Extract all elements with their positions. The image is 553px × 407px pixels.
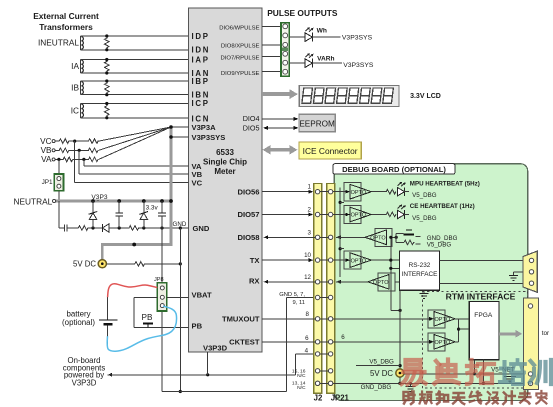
svg-text:VARh: VARh bbox=[317, 55, 334, 62]
svg-text:OPTO: OPTO bbox=[351, 258, 367, 264]
svg-text:CE HEARTBEAT (1Hz): CE HEARTBEAT (1Hz) bbox=[410, 203, 475, 210]
svg-text:DIO8/XPULSE: DIO8/XPULSE bbox=[221, 43, 260, 49]
svg-text:OPTO: OPTO bbox=[351, 190, 367, 196]
svg-text:DIO56: DIO56 bbox=[238, 187, 260, 196]
svg-text:OPTO: OPTO bbox=[435, 340, 451, 346]
svg-text:5V DC: 5V DC bbox=[73, 260, 96, 269]
svg-text:DIO9/YPULSE: DIO9/YPULSE bbox=[221, 71, 260, 77]
svg-text:CKTEST: CKTEST bbox=[229, 338, 260, 347]
svg-text:3.3V LCD: 3.3V LCD bbox=[410, 93, 441, 100]
svg-text:IDP: IDP bbox=[192, 32, 210, 41]
svg-text:RS-232: RS-232 bbox=[409, 262, 431, 269]
svg-text:VB: VB bbox=[41, 146, 52, 155]
svg-text:N/C: N/C bbox=[297, 373, 306, 379]
svg-text:V5_DBG: V5_DBG bbox=[369, 359, 394, 366]
svg-text:TMUXOUT: TMUXOUT bbox=[222, 315, 260, 324]
svg-text:RX: RX bbox=[249, 277, 260, 286]
svg-text:FPGA: FPGA bbox=[474, 312, 493, 319]
svg-text:EEPROM: EEPROM bbox=[299, 119, 335, 128]
svg-text:INTERFACE: INTERFACE bbox=[402, 271, 438, 278]
svg-text:IAP: IAP bbox=[192, 55, 210, 64]
svg-text:VBAT: VBAT bbox=[192, 291, 212, 300]
svg-text:8: 8 bbox=[306, 311, 310, 318]
svg-text:Wh: Wh bbox=[317, 27, 327, 34]
svg-text:V3P3SYS: V3P3SYS bbox=[192, 133, 226, 142]
svg-text:VC: VC bbox=[40, 137, 51, 146]
svg-text:V3P3SYS: V3P3SYS bbox=[343, 62, 374, 69]
svg-text:2: 2 bbox=[308, 207, 312, 214]
svg-text:GND 5, 7,: GND 5, 7, bbox=[279, 292, 305, 298]
svg-text:OPTO: OPTO bbox=[373, 280, 389, 286]
svg-text:VA: VA bbox=[41, 155, 52, 164]
svg-text:TX: TX bbox=[250, 256, 260, 265]
svg-text:J2: J2 bbox=[314, 394, 323, 403]
svg-text:MPU HEARTBEAT (5Hz): MPU HEARTBEAT (5Hz) bbox=[410, 180, 480, 187]
svg-text:NEUTRAL: NEUTRAL bbox=[14, 196, 53, 206]
svg-text:(optional): (optional) bbox=[62, 318, 95, 327]
svg-text:6533: 6533 bbox=[216, 148, 234, 157]
svg-text:tor: tor bbox=[542, 330, 550, 337]
svg-text:OPTO: OPTO bbox=[351, 213, 367, 219]
svg-text:GND_DBG: GND_DBG bbox=[361, 384, 392, 391]
svg-text:VC: VC bbox=[192, 178, 203, 187]
svg-text:IBP: IBP bbox=[192, 77, 210, 86]
svg-text:GND: GND bbox=[193, 224, 210, 233]
svg-text:Meter: Meter bbox=[214, 167, 235, 176]
svg-text:JP21: JP21 bbox=[331, 394, 350, 403]
svg-text:DIO6/WPULSE: DIO6/WPULSE bbox=[219, 25, 259, 31]
svg-text:V5_DBG: V5_DBG bbox=[412, 215, 437, 222]
svg-text:V3P3A: V3P3A bbox=[192, 123, 217, 132]
svg-text:DIO57: DIO57 bbox=[238, 210, 260, 219]
svg-text:DEBUG BOARD (OPTIONAL): DEBUG BOARD (OPTIONAL) bbox=[342, 165, 446, 174]
svg-text:Single Chip: Single Chip bbox=[203, 157, 247, 166]
svg-text:PB: PB bbox=[142, 313, 153, 322]
svg-text:3.3v: 3.3v bbox=[146, 205, 159, 212]
svg-text:PULSE OUTPUTS: PULSE OUTPUTS bbox=[267, 8, 338, 18]
svg-text:JP1: JP1 bbox=[42, 179, 53, 186]
svg-text:6: 6 bbox=[341, 334, 345, 341]
svg-text:OPTO: OPTO bbox=[435, 317, 451, 323]
svg-text:9, 11: 9, 11 bbox=[293, 300, 305, 306]
svg-text:INEUTRAL: INEUTRAL bbox=[38, 38, 79, 48]
svg-text:5V DC: 5V DC bbox=[370, 369, 393, 378]
svg-text:IA: IA bbox=[71, 61, 79, 71]
svg-text:GND: GND bbox=[173, 221, 187, 228]
svg-text:12: 12 bbox=[304, 274, 311, 281]
svg-text:RTM INTERFACE: RTM INTERFACE bbox=[446, 291, 516, 301]
svg-text:Transformers: Transformers bbox=[39, 22, 93, 32]
svg-text:DIO5: DIO5 bbox=[243, 123, 260, 132]
svg-text:JP8: JP8 bbox=[154, 277, 164, 283]
svg-text:6: 6 bbox=[305, 335, 309, 342]
svg-text:1: 1 bbox=[308, 184, 312, 191]
svg-text:3: 3 bbox=[308, 229, 312, 236]
svg-text:ICN: ICN bbox=[192, 114, 211, 123]
svg-text:External Current: External Current bbox=[33, 11, 99, 21]
svg-text:IDN: IDN bbox=[192, 46, 211, 55]
svg-text:V5_DBG: V5_DBG bbox=[412, 192, 437, 199]
svg-text:V3P3D: V3P3D bbox=[203, 343, 228, 352]
svg-text:10: 10 bbox=[304, 252, 311, 259]
svg-text:V5_DBG: V5_DBG bbox=[427, 242, 452, 249]
svg-text:DIO7/RPULSE: DIO7/RPULSE bbox=[221, 55, 260, 61]
svg-text:DIO58: DIO58 bbox=[238, 233, 260, 242]
svg-text:DIO4: DIO4 bbox=[243, 114, 260, 123]
svg-text:N/C: N/C bbox=[297, 385, 306, 391]
svg-text:IC: IC bbox=[71, 105, 79, 115]
svg-text:PB: PB bbox=[192, 322, 203, 331]
svg-text:ICP: ICP bbox=[192, 99, 210, 108]
svg-text:IB: IB bbox=[71, 83, 79, 93]
svg-text:OPTO: OPTO bbox=[370, 236, 386, 242]
svg-text:V3P3SYS: V3P3SYS bbox=[342, 35, 373, 42]
svg-text:ICE Connector: ICE Connector bbox=[303, 146, 358, 156]
svg-text:V3P3D: V3P3D bbox=[72, 378, 97, 387]
svg-text:4: 4 bbox=[305, 347, 309, 354]
